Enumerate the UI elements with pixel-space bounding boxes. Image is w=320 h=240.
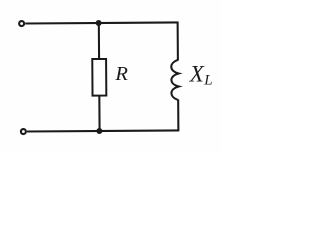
- wire top horizontal: [25, 22, 177, 23]
- svg-text:X: X: [189, 62, 205, 87]
- terminal bottom-left: [21, 129, 26, 134]
- inductor XL coil: [171, 60, 179, 100]
- wire middle branch upper: [98, 23, 100, 59]
- wire middle branch lower: [98, 96, 100, 131]
- node top junction: [96, 20, 102, 26]
- terminal top-left: [19, 21, 24, 26]
- resistor R body: [92, 59, 106, 96]
- wire right side down to inductor: [177, 22, 179, 61]
- wire right side below inductor: [177, 99, 179, 131]
- wire bottom horizontal: [27, 130, 178, 131]
- svg-text:R: R: [114, 63, 128, 85]
- svg-text:L: L: [203, 73, 212, 89]
- node bottom junction: [96, 128, 102, 134]
